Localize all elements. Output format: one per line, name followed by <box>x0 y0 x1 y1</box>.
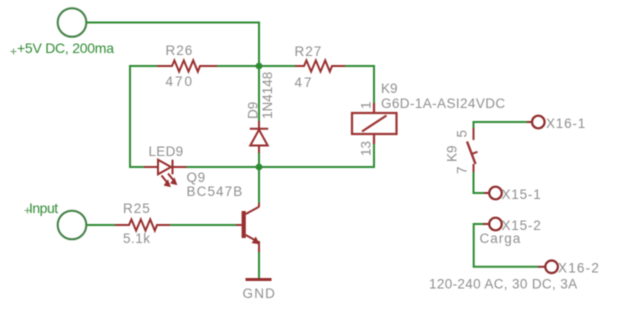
value G6D-1A-ASI24VDC <box>381 96 506 111</box>
pin stub X15-2 <box>483 223 489 225</box>
value 5.1k <box>123 231 151 246</box>
terminal +5V supply pad <box>58 8 87 37</box>
label LED9 <box>149 144 184 159</box>
wire relay contact pin 5 to X16-1 <box>474 122 528 140</box>
svg-text:5: 5 <box>455 130 470 138</box>
wire node B to Q9 collector <box>258 167 260 203</box>
svg-text:K9: K9 <box>381 81 398 96</box>
wire R26 left loop down to LED <box>130 66 157 167</box>
value 1N4148 (rotated) <box>260 72 275 119</box>
svg-text:LED9: LED9 <box>149 144 184 159</box>
relay contact K9 (switch) <box>467 128 478 172</box>
resistor R26 <box>157 60 217 71</box>
svg-text:X16-1: X16-1 <box>546 116 586 131</box>
label Input <box>29 200 58 216</box>
wire D9 to node B <box>258 153 260 167</box>
origin cross +5V <box>11 49 17 55</box>
terminal X16-2 <box>545 261 558 274</box>
svg-text:470: 470 <box>166 74 195 89</box>
wire node A down to D9 <box>258 66 260 121</box>
label Q9 <box>187 170 206 185</box>
pin stub X15-1 <box>484 192 489 194</box>
resistor R27 <box>295 60 345 71</box>
label K9 (contact, rotated) <box>445 145 460 162</box>
svg-text:G6D-1A-ASI24VDC: G6D-1A-ASI24VDC <box>381 96 506 111</box>
terminal X15-1 <box>489 187 502 200</box>
pin label 7 (rotated) <box>455 166 470 174</box>
wire +5V to node A <box>86 23 259 67</box>
wire X15-2 to X16-2 <box>474 224 538 267</box>
pin stub X16-1 <box>527 121 532 123</box>
svg-text:R26: R26 <box>166 43 194 58</box>
svg-text:Input: Input <box>29 200 58 216</box>
svg-text:X15-1: X15-1 <box>502 187 542 202</box>
wire node A to R26 <box>217 65 259 67</box>
wire relay pin 13 to node B <box>259 144 374 167</box>
svg-text:47: 47 <box>295 75 314 90</box>
value BC547B <box>187 184 244 199</box>
value 47 <box>295 75 314 90</box>
pin label 1 (rotated) <box>359 101 374 109</box>
svg-text:5.1k: 5.1k <box>123 231 151 246</box>
svg-text:13: 13 <box>359 141 374 156</box>
wire contact pin 7 to X15-1 <box>474 172 485 193</box>
wire R27 to relay K9 pin 1 <box>345 66 374 103</box>
wire Q9 emitter to GND <box>258 252 260 278</box>
label X15-1 <box>502 187 542 202</box>
ground GND <box>246 278 272 281</box>
terminal X16-1 <box>532 116 545 129</box>
label Carga <box>480 231 522 246</box>
wire node A to R27 <box>259 65 295 67</box>
svg-text:X16-2: X16-2 <box>558 261 600 276</box>
label +5V DC, 200ma <box>17 40 114 56</box>
svg-text:120-240 AC, 30 DC, 3A: 120-240 AC, 30 DC, 3A <box>429 277 577 292</box>
svg-text:Carga: Carga <box>480 231 522 246</box>
label R27 <box>295 44 323 59</box>
svg-text:K9: K9 <box>445 145 460 162</box>
terminal Input pad <box>58 211 87 240</box>
resistor R25 <box>115 219 171 230</box>
pin label 13 (rotated) <box>359 141 374 156</box>
pin stub X16-2 <box>538 266 545 268</box>
label D9 (rotated) <box>246 102 261 119</box>
svg-text:BC547B: BC547B <box>187 184 244 199</box>
svg-text:1N4148: 1N4148 <box>260 72 275 119</box>
svg-text:GND: GND <box>243 286 277 301</box>
diode D9 (cathode up) <box>250 121 268 153</box>
label X16-2 <box>558 261 600 276</box>
wire R25 to Q9 base <box>170 224 242 226</box>
label X15-2 <box>502 218 542 233</box>
svg-text:1: 1 <box>359 101 374 109</box>
value 470 <box>166 74 195 89</box>
wire LED to node B <box>187 166 260 168</box>
label R26 <box>166 43 194 58</box>
wire Input to R25 <box>86 224 115 226</box>
origin cross Input <box>25 208 31 214</box>
node A junction <box>256 63 263 70</box>
node B junction <box>256 164 263 171</box>
relay coil K9 <box>352 103 397 144</box>
transistor Q9 BC547B <box>236 203 259 252</box>
svg-text:+5V DC, 200ma: +5V DC, 200ma <box>17 40 114 56</box>
pin label 5 (rotated) <box>455 130 470 138</box>
label R25 <box>123 201 151 216</box>
svg-text:R25: R25 <box>123 201 151 216</box>
label GND <box>243 286 277 301</box>
label K9 (relay) <box>381 81 398 96</box>
terminal X15-2 <box>489 218 502 231</box>
label X16-1 <box>546 116 586 131</box>
label 120-240 AC, 30 DC, 3A <box>429 277 577 292</box>
svg-text:D9: D9 <box>246 102 261 119</box>
LED LED9 <box>144 160 187 186</box>
svg-text:7: 7 <box>455 166 470 174</box>
svg-text:Q9: Q9 <box>187 170 206 185</box>
svg-text:R27: R27 <box>295 44 323 59</box>
